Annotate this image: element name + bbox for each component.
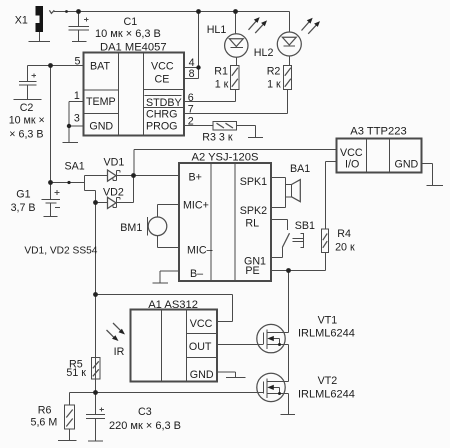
svg-text:220 мк × 6,3 В: 220 мк × 6,3 В	[109, 420, 181, 432]
svg-text:SB1: SB1	[295, 220, 315, 232]
svg-text:VD1: VD1	[104, 157, 125, 169]
svg-text:8: 8	[189, 68, 195, 80]
svg-text:× 6,3 В: × 6,3 В	[9, 129, 43, 141]
svg-text:10 мк × 6,3 В: 10 мк × 6,3 В	[95, 28, 161, 40]
svg-text:5,6 М: 5,6 М	[31, 417, 58, 429]
svg-text:GND: GND	[89, 121, 113, 133]
svg-text:SPK2: SPK2	[240, 205, 267, 217]
svg-text:1 к: 1 к	[215, 79, 229, 91]
svg-text:B–: B–	[190, 268, 203, 280]
svg-text:VCC: VCC	[151, 61, 174, 73]
svg-text:TEMP: TEMP	[86, 96, 116, 108]
svg-text:SA1: SA1	[65, 161, 85, 173]
svg-text:6: 6	[188, 92, 194, 104]
svg-text:DA1 ME4057: DA1 ME4057	[100, 42, 167, 54]
svg-text:IRLML6244: IRLML6244	[298, 328, 355, 340]
svg-text:MIC–: MIC–	[187, 245, 213, 257]
svg-text:VT1: VT1	[318, 315, 338, 327]
svg-text:CHRG: CHRG	[146, 109, 177, 121]
svg-text:PROG: PROG	[146, 121, 177, 133]
svg-text:VD1, VD2 SS54: VD1, VD2 SS54	[24, 246, 97, 257]
svg-text:1 к: 1 к	[267, 79, 281, 91]
svg-text:STDBY: STDBY	[146, 97, 182, 109]
svg-text:OUT: OUT	[189, 341, 212, 353]
svg-text:GND: GND	[395, 159, 419, 171]
svg-text:3: 3	[74, 113, 80, 125]
svg-text:PE: PE	[245, 265, 259, 277]
svg-text:2: 2	[188, 115, 194, 127]
svg-text:VCC: VCC	[340, 147, 363, 159]
svg-text:R3 3 к: R3 3 к	[202, 132, 233, 144]
svg-text:A2 YSJ-120S: A2 YSJ-120S	[192, 152, 259, 164]
svg-text:HL1: HL1	[207, 24, 227, 36]
svg-text:R6: R6	[38, 405, 52, 417]
svg-text:SPK1: SPK1	[240, 176, 267, 188]
svg-text:IRLML6244: IRLML6244	[298, 389, 355, 401]
svg-text:MIC+: MIC+	[183, 200, 209, 212]
svg-text:VD2: VD2	[103, 187, 124, 199]
svg-text:IR: IR	[114, 346, 125, 358]
svg-text:C3: C3	[138, 406, 152, 418]
svg-text:A1 AS312: A1 AS312	[148, 299, 198, 311]
svg-text:R1: R1	[214, 66, 228, 78]
svg-text:3,7 В: 3,7 В	[11, 202, 36, 214]
svg-text:5: 5	[75, 56, 81, 68]
svg-text:BAT: BAT	[90, 61, 110, 73]
svg-text:C2: C2	[20, 102, 34, 114]
svg-text:HL2: HL2	[254, 47, 274, 59]
svg-text:R2: R2	[267, 66, 281, 78]
svg-text:BM1: BM1	[120, 222, 142, 234]
svg-text:G1: G1	[16, 189, 30, 201]
svg-text:RL: RL	[245, 218, 259, 230]
svg-text:CE: CE	[155, 74, 170, 86]
svg-text:51 к: 51 к	[66, 367, 86, 379]
svg-text:VCC: VCC	[190, 318, 213, 330]
svg-text:C1: C1	[124, 16, 138, 28]
svg-text:10 мк ×: 10 мк ×	[9, 115, 45, 127]
svg-text:A3 TTP223: A3 TTP223	[350, 126, 406, 138]
svg-text:GND: GND	[190, 369, 214, 381]
svg-text:BA1: BA1	[290, 163, 310, 175]
svg-text:R4: R4	[337, 228, 351, 240]
svg-text:I/O: I/O	[345, 159, 359, 171]
svg-text:7: 7	[188, 104, 194, 116]
svg-text:B+: B+	[189, 172, 202, 184]
svg-text:1: 1	[74, 90, 80, 102]
svg-text:X1: X1	[15, 15, 28, 27]
svg-text:20 к: 20 к	[335, 242, 355, 254]
svg-text:VT2: VT2	[318, 375, 338, 387]
